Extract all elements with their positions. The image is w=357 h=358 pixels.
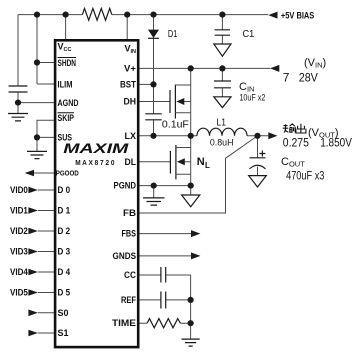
- capacitor C1: [215, 30, 231, 35]
- svg-text:470uF x3: 470uF x3: [286, 170, 324, 182]
- resistor (TIME): [147, 319, 180, 328]
- arrow +5V BIAS input: [268, 12, 277, 19]
- transistor NL stubs: [176, 148, 191, 175]
- svg-text:D 1: D 1: [58, 206, 71, 216]
- node AGND: [15, 100, 21, 106]
- svg-text:D 5: D 5: [58, 288, 71, 298]
- arrow output: [268, 132, 277, 139]
- wire DL to gate: [139, 161, 170, 163]
- node output COUT: [254, 133, 260, 139]
- svg-text:BST: BST: [120, 79, 136, 89]
- wire VID0: [38, 189, 55, 191]
- node V+ FET drain: [188, 65, 194, 71]
- transistor NH channel bar: [174, 85, 176, 119]
- wire left vertical from rail to cap: [17, 15, 19, 86]
- wire S0: [38, 312, 55, 314]
- svg-text:LX: LX: [125, 131, 137, 141]
- svg-text:D1: D1: [168, 28, 178, 40]
- capacitor REF: [161, 292, 166, 309]
- svg-text:PGND: PGND: [114, 181, 137, 191]
- svg-text:VID2: VID2: [10, 226, 28, 236]
- capacitor COUT plus sign: [259, 151, 265, 157]
- svg-text:VID5: VID5: [10, 288, 28, 298]
- arrow transistor NH: [176, 98, 184, 105]
- wire V+ rail: [139, 67, 270, 69]
- transistor NH stubs: [175, 85, 190, 113]
- wire VID1: [38, 210, 55, 212]
- pin label SKIP: [58, 113, 75, 123]
- node rail-D1: [150, 12, 156, 18]
- arrow transistor NL: [177, 158, 185, 165]
- svg-text:CC: CC: [124, 270, 136, 280]
- ground triangle (COUT): [249, 176, 267, 187]
- ground (TIME): [182, 339, 200, 346]
- diode D1 body: [148, 30, 159, 38]
- svg-text:N: N: [197, 156, 205, 168]
- diode D1 cathode bar: [148, 37, 159, 39]
- svg-text:L1: L1: [217, 117, 227, 128]
- svg-text:C1: C1: [243, 28, 255, 40]
- arrow VID0: [28, 187, 38, 194]
- capacitor CIN: [214, 81, 231, 88]
- svg-text:28V: 28V: [299, 70, 318, 84]
- arrow S1: [28, 330, 38, 337]
- arrow FBS: [191, 230, 200, 237]
- svg-text:VID1: VID1: [10, 206, 28, 216]
- wire LX rail: [139, 135, 268, 137]
- svg-text:PGOOD: PGOOD: [56, 171, 79, 178]
- svg-text:TIME: TIME: [112, 318, 136, 328]
- svg-text:D 0: D 0: [58, 185, 71, 195]
- wire REF to cap: [139, 299, 191, 301]
- ground (SUS): [27, 151, 47, 158]
- inductor L1: [197, 128, 247, 136]
- svg-text:MAXIM: MAXIM: [63, 141, 129, 156]
- svg-text:M A X 8 7 2 0: M A X 8 7 2 0: [75, 160, 114, 167]
- svg-text:DL: DL: [125, 157, 137, 167]
- arrow VIN input: [270, 65, 279, 72]
- node REF: [188, 297, 194, 303]
- wire VID5: [38, 292, 55, 294]
- svg-text:FBS: FBS: [122, 229, 137, 239]
- op-amp U1 (IC MAX8720 body): [55, 40, 138, 347]
- svg-text:L: L: [205, 161, 210, 170]
- svg-text:S1: S1: [58, 328, 69, 338]
- svg-text:VID3: VID3: [10, 247, 28, 257]
- svg-text:0.8uH: 0.8uH: [210, 138, 234, 149]
- svg-text:D 3: D 3: [58, 247, 71, 257]
- svg-text:DH: DH: [124, 97, 137, 107]
- ground triangle (CIN): [214, 97, 231, 108]
- wire SHDN arrow stub: [34, 172, 55, 174]
- wire VID4: [38, 271, 55, 273]
- ground (PGND): [143, 198, 165, 205]
- ground triangle (C1): [214, 44, 231, 56]
- arrow VID1: [28, 207, 38, 214]
- wire AGND to cap node: [18, 92, 55, 114]
- node rail-C1: [219, 12, 225, 18]
- wire top +5V rail: [18, 14, 268, 16]
- svg-text:1.850V: 1.850V: [320, 135, 352, 149]
- capacitor 0.1uF: [145, 114, 161, 120]
- svg-text:V+: V+: [124, 63, 136, 73]
- svg-text:ILIM: ILIM: [58, 80, 73, 90]
- node rail-VIN: [124, 12, 130, 18]
- wire high-side FET drain/source vertical: [190, 68, 192, 135]
- node LX 0.1uF: [150, 133, 156, 139]
- wire vertical VCC/SHDN/ILIM branch: [37, 15, 55, 84]
- svg-text:REF: REF: [121, 295, 136, 305]
- arrow GNDS: [191, 252, 200, 259]
- wire PGND: [139, 186, 191, 198]
- svg-text:10uF x2: 10uF x2: [239, 93, 265, 104]
- svg-text:D 2: D 2: [58, 226, 71, 236]
- transistor NH gate bar: [169, 90, 171, 113]
- svg-text:0.1uF: 0.1uF: [162, 119, 189, 131]
- wire BST to D1 column: [139, 83, 154, 85]
- wire low-side FET vertical to ground: [190, 136, 192, 195]
- node LX FET: [188, 133, 194, 139]
- svg-text:SHDN: SHDN: [58, 58, 77, 68]
- svg-text:+5V BIAS: +5V BIAS: [281, 10, 314, 20]
- node PGND NL: [188, 183, 194, 189]
- svg-text:0.275: 0.275: [283, 135, 309, 149]
- arrow S0: [28, 310, 38, 317]
- capacitor (VCC bypass): [9, 86, 28, 92]
- svg-text:SKIP: SKIP: [58, 113, 75, 123]
- svg-text:AGND: AGND: [58, 98, 79, 108]
- capacitor CC: [161, 267, 166, 283]
- wire DH to gate: [139, 101, 170, 103]
- svg-text:S0: S0: [58, 308, 69, 318]
- pin label SHDN: [58, 58, 77, 69]
- label 输出 (drawn glyphs): [283, 124, 306, 133]
- arrow VID5: [28, 289, 38, 296]
- wire CIN column: [221, 68, 223, 96]
- wire 0.1uF cap to LX: [153, 120, 155, 136]
- wire C1 column: [221, 15, 223, 44]
- wire VCC pin to rail: [65, 15, 67, 40]
- node SUS: [34, 134, 40, 140]
- wire CC to cap and corner: [139, 275, 191, 339]
- arrow VID3: [28, 248, 38, 255]
- arrow VID2: [28, 228, 38, 235]
- svg-text:7: 7: [283, 70, 290, 84]
- ground (AGND): [8, 114, 28, 121]
- transistor NL gate bar: [169, 151, 171, 174]
- svg-text:GNDS: GNDS: [113, 251, 137, 261]
- wire GNDS: [139, 255, 191, 257]
- node TIME: [188, 320, 194, 326]
- capacitor COUT plates: [250, 158, 266, 169]
- node BST: [150, 81, 156, 87]
- wire D1 branch vertical: [153, 15, 155, 114]
- wire FBS: [139, 233, 191, 235]
- node rail-VCC: [34, 12, 40, 18]
- wire VID3: [38, 251, 55, 253]
- svg-text:FB: FB: [123, 208, 137, 218]
- wire COUT column: [257, 136, 259, 176]
- svg-text:VID0: VID0: [10, 185, 28, 195]
- arrow VID4: [28, 269, 38, 276]
- node V+ CIN: [219, 65, 225, 71]
- wire VIN pin to rail: [126, 15, 128, 40]
- transistor NL channel bar: [175, 145, 177, 179]
- ground triangle (NL source): [182, 195, 200, 207]
- resistor R1 (VCC-VIN): [82, 8, 111, 20]
- wire TIME to resistor: [139, 322, 191, 324]
- wire VID2: [38, 230, 55, 232]
- node SHDN: [34, 59, 40, 65]
- node PGND gnd: [151, 183, 157, 189]
- wire S1: [38, 332, 55, 334]
- svg-text:D 4: D 4: [58, 267, 71, 277]
- svg-text:VID4: VID4: [10, 267, 28, 277]
- wire FB route: [139, 136, 258, 213]
- wire SKIP to SUS branch: [37, 120, 55, 151]
- arrow PGOOD output: [25, 170, 34, 177]
